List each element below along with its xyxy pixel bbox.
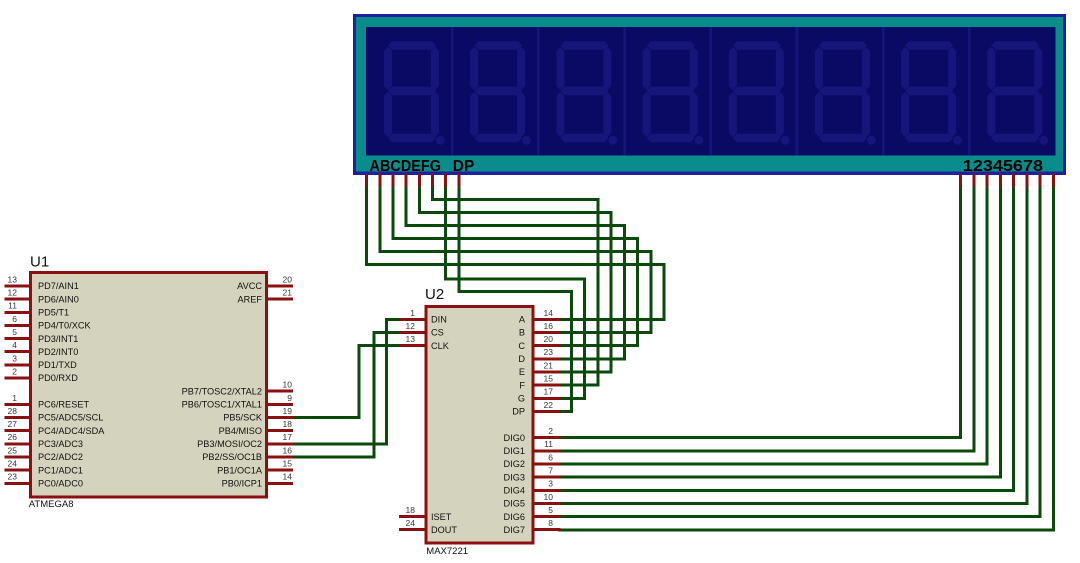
wire segment C: display C to U2 C xyxy=(393,189,638,346)
U1 pin 16 PB2/SS/OC1B xyxy=(202,445,293,462)
svg-text:16: 16 xyxy=(283,445,293,455)
svg-text:25: 25 xyxy=(8,445,18,455)
wire segment E: display E to U2 E xyxy=(419,189,611,373)
wire digit 4: display pin 4 to U2 DIG3 xyxy=(560,189,1001,478)
svg-text:PD5/T1: PD5/T1 xyxy=(38,308,69,318)
svg-text:18: 18 xyxy=(406,505,416,515)
svg-text:DIG7: DIG7 xyxy=(504,525,525,535)
U2 value label MAX7221 xyxy=(426,546,468,557)
svg-text:24: 24 xyxy=(406,518,416,528)
U2 pin 14 A xyxy=(519,308,561,325)
svg-text:13: 13 xyxy=(8,274,18,284)
svg-text:PB2/SS/OC1B: PB2/SS/OC1B xyxy=(202,452,262,462)
U1 pin 14 PB0/ICP1 xyxy=(222,472,293,489)
display pin C xyxy=(391,174,394,188)
U1 pin 28 PC5/ADC5/SCL xyxy=(5,406,104,423)
display pin digit 5 xyxy=(1012,174,1015,188)
wire digit 6: display pin 6 to U2 DIG5 xyxy=(560,189,1027,504)
svg-text:12: 12 xyxy=(406,321,416,331)
svg-text:U2: U2 xyxy=(425,286,444,303)
svg-text:CS: CS xyxy=(431,328,444,338)
svg-text:PB3/MOSI/OC2: PB3/MOSI/OC2 xyxy=(197,439,262,449)
svg-text:14: 14 xyxy=(283,472,293,482)
U2 pin 3 DIG4 xyxy=(504,479,561,496)
U2 pin 11 DIG1 xyxy=(504,439,561,456)
svg-text:2: 2 xyxy=(12,366,17,376)
svg-text:26: 26 xyxy=(8,432,18,442)
wire segment A: display A to U2 A xyxy=(367,189,664,320)
U2 pin 13 CLK xyxy=(399,334,450,351)
wire segment DP: display DP to U2 DP xyxy=(459,189,572,412)
svg-text:21: 21 xyxy=(283,288,293,298)
svg-text:AVCC: AVCC xyxy=(237,281,262,291)
svg-text:23: 23 xyxy=(544,347,554,357)
svg-text:PC4/ADC4/SDA: PC4/ADC4/SDA xyxy=(38,426,105,436)
svg-text:17: 17 xyxy=(544,387,554,397)
U1 pin 1 PC6/RESET xyxy=(5,393,90,410)
U2 pin 10 DIG5 xyxy=(504,492,561,509)
svg-text:PC3/ADC3: PC3/ADC3 xyxy=(38,439,83,449)
display pin digit 3 xyxy=(986,174,989,188)
U1 pin 11 PD5/T1 xyxy=(5,301,70,318)
display digit separators xyxy=(451,27,971,155)
svg-text:PC6/RESET: PC6/RESET xyxy=(38,400,89,410)
svg-text:A: A xyxy=(519,315,526,325)
U1 pin 18 PB4/MISO xyxy=(219,419,293,436)
U1 pin 4 PD2/INT0 xyxy=(5,340,79,357)
7-seg digit 8 xyxy=(987,41,1048,145)
U1 pin 27 PC4/ADC4/SDA xyxy=(5,419,106,436)
display pin digit 6 xyxy=(1025,174,1028,188)
U1 pin 23 PC0/ADC0 xyxy=(5,472,83,489)
svg-text:9: 9 xyxy=(287,393,292,403)
svg-text:PD7/AIN1: PD7/AIN1 xyxy=(38,281,79,291)
svg-text:5: 5 xyxy=(548,505,553,515)
svg-text:15: 15 xyxy=(544,374,554,384)
svg-text:2: 2 xyxy=(548,426,553,436)
svg-text:DIN: DIN xyxy=(431,315,447,325)
svg-text:23: 23 xyxy=(8,472,18,482)
svg-text:20: 20 xyxy=(544,334,554,344)
display pin E xyxy=(418,174,421,188)
svg-text:F: F xyxy=(519,380,525,390)
svg-text:PB7/TOSC2/XTAL2: PB7/TOSC2/XTAL2 xyxy=(182,386,262,396)
svg-text:11: 11 xyxy=(8,301,17,311)
display pin B xyxy=(378,174,381,188)
svg-text:6: 6 xyxy=(548,452,553,462)
svg-text:27: 27 xyxy=(8,419,18,429)
U2 pin 17 G xyxy=(518,387,561,404)
svg-text:DIG6: DIG6 xyxy=(504,512,525,522)
display pin digit 7 xyxy=(1039,174,1042,188)
U1 pin 15 PB1/OC1A xyxy=(217,459,293,476)
display pin digit 8 xyxy=(1052,174,1055,188)
svg-text:13: 13 xyxy=(406,334,416,344)
U1 pin 17 PB3/MOSI/OC2 xyxy=(197,432,293,449)
wire CLK: U2 CLK to U1 PB5/SCK xyxy=(293,346,399,418)
svg-text:PB4/MISO: PB4/MISO xyxy=(219,426,262,436)
U2 pin 22 DP xyxy=(512,400,560,417)
wire digit 1: display pin 1 to U2 DIG0 xyxy=(560,189,961,438)
wire segment B: display B to U2 B xyxy=(380,189,651,333)
U1 pin 24 PC1/ADC1 xyxy=(5,459,83,476)
svg-text:6: 6 xyxy=(12,314,17,324)
U2 refdes label xyxy=(425,286,444,303)
display pin digit 4 xyxy=(999,174,1002,188)
svg-text:PD4/T0/XCK: PD4/T0/XCK xyxy=(38,321,91,331)
U2 pin 16 B xyxy=(519,321,561,338)
7-seg digit 2 xyxy=(470,41,531,145)
wire digit 8: display pin 8 to U2 DIG7 xyxy=(560,189,1054,530)
svg-text:PB1/OC1A: PB1/OC1A xyxy=(217,465,263,475)
U1 pin 10 PB7/TOSC2/XTAL2 xyxy=(182,380,293,397)
svg-text:4: 4 xyxy=(12,340,17,350)
7-segment 8-digit display body xyxy=(353,14,1066,175)
svg-text:8: 8 xyxy=(548,518,553,528)
U2 pin 20 C xyxy=(518,334,560,351)
U1 pin 6 PD4/T0/XCK xyxy=(5,314,92,331)
U1 pin 19 PB5/SCK xyxy=(223,406,293,423)
U2 pin 24 DOUT xyxy=(399,518,457,535)
svg-text:U1: U1 xyxy=(30,254,49,271)
svg-text:PC1/ADC1: PC1/ADC1 xyxy=(38,465,83,475)
wire segment G: display G to U2 G xyxy=(446,189,585,399)
U2 pin 5 DIG6 xyxy=(504,505,561,522)
wire digit 7: display pin 7 to U2 DIG6 xyxy=(560,189,1041,517)
svg-text:DIG4: DIG4 xyxy=(504,486,525,496)
svg-text:AREF: AREF xyxy=(237,294,262,304)
svg-text:12: 12 xyxy=(8,288,18,298)
svg-text:PB6/TOSC1/XTAL1: PB6/TOSC1/XTAL1 xyxy=(182,400,262,410)
svg-text:CLK: CLK xyxy=(431,341,450,351)
svg-text:11: 11 xyxy=(544,439,553,449)
U1 refdes label xyxy=(30,254,49,271)
U1 pin 9 PB6/TOSC1/XTAL1 xyxy=(182,393,293,410)
display pin D xyxy=(405,174,408,188)
svg-text:10: 10 xyxy=(283,380,293,390)
display pin A xyxy=(365,174,368,188)
wire digit 2: display pin 2 to U2 DIG1 xyxy=(560,189,974,451)
svg-text:19: 19 xyxy=(283,406,293,416)
svg-text:DIG0: DIG0 xyxy=(504,433,525,443)
wire digit 5: display pin 5 to U2 DIG4 xyxy=(560,189,1014,491)
svg-text:DOUT: DOUT xyxy=(431,525,457,535)
U1 pin 13 PD7/AIN1 xyxy=(5,274,79,291)
U1 pin 3 PD1/TXD xyxy=(5,353,78,370)
display pin G xyxy=(444,174,447,188)
svg-text:14: 14 xyxy=(544,308,554,318)
svg-text:E: E xyxy=(519,367,525,377)
display pin digit 1 xyxy=(959,174,962,188)
svg-text:DIG5: DIG5 xyxy=(504,499,525,509)
U1 pin 25 PC2/ADC2 xyxy=(5,445,83,462)
svg-text:DIG1: DIG1 xyxy=(504,446,525,456)
svg-text:12345678: 12345678 xyxy=(963,158,1043,175)
svg-text:B: B xyxy=(519,328,525,338)
svg-text:24: 24 xyxy=(8,459,18,469)
svg-text:DIG3: DIG3 xyxy=(504,472,525,482)
svg-text:PD0/RXD: PD0/RXD xyxy=(38,373,78,383)
svg-text:ATMEGA8: ATMEGA8 xyxy=(29,499,74,510)
U1 value label ATMEGA8 xyxy=(29,499,74,510)
wire segment D: display D to U2 D xyxy=(406,189,624,359)
svg-text:PD1/TXD: PD1/TXD xyxy=(38,360,77,370)
svg-text:PB0/ICP1: PB0/ICP1 xyxy=(222,478,262,488)
svg-text:10: 10 xyxy=(544,492,554,502)
svg-text:28: 28 xyxy=(8,406,18,416)
U2 pin 18 ISET xyxy=(399,505,452,522)
svg-text:DIG2: DIG2 xyxy=(504,459,525,469)
display pin DP xyxy=(457,174,460,188)
7-seg digit 1 xyxy=(384,41,445,145)
wire segment F: display F to U2 F xyxy=(433,189,598,386)
wire digit 3: display pin 3 to U2 DIG2 xyxy=(560,189,988,465)
U1 pin 26 PC3/ADC3 xyxy=(5,432,83,449)
U2 pin 2 DIG0 xyxy=(504,426,561,443)
U2 pin 8 DIG7 xyxy=(504,518,561,535)
U2 pin 6 DIG2 xyxy=(504,452,561,469)
U2 pin 7 DIG3 xyxy=(504,466,561,483)
svg-text:16: 16 xyxy=(544,321,554,331)
svg-text:PD3/INT1: PD3/INT1 xyxy=(38,334,78,344)
svg-text:PD6/AIN0: PD6/AIN0 xyxy=(38,294,79,304)
IC U2 MAX7221 body xyxy=(426,306,533,543)
display pin F xyxy=(431,174,434,188)
svg-text:17: 17 xyxy=(283,432,293,442)
svg-text:C: C xyxy=(518,341,525,351)
display segment labels ABCDEFG DP xyxy=(370,158,475,175)
U1 pin 5 PD3/INT1 xyxy=(5,327,79,344)
svg-text:20: 20 xyxy=(283,274,293,284)
svg-text:5: 5 xyxy=(12,327,17,337)
svg-text:PD2/INT0: PD2/INT0 xyxy=(38,347,78,357)
svg-text:7: 7 xyxy=(548,466,553,476)
svg-text:22: 22 xyxy=(544,400,554,410)
svg-text:DP: DP xyxy=(453,158,475,175)
svg-text:PC5/ADC5/SCL: PC5/ADC5/SCL xyxy=(38,413,103,423)
svg-text:DP: DP xyxy=(512,407,525,417)
svg-text:PB5/SCK: PB5/SCK xyxy=(223,413,263,423)
U2 pin 23 D xyxy=(518,347,560,364)
svg-text:ABCDEFG: ABCDEFG xyxy=(370,158,442,175)
U2 pin 12 CS xyxy=(399,321,444,338)
7-seg digit 4 xyxy=(643,41,704,145)
svg-text:G: G xyxy=(518,394,525,404)
svg-text:MAX7221: MAX7221 xyxy=(426,546,468,557)
wire CS: U2 CS to U1 PB2/SS xyxy=(293,333,399,457)
U1 pin 20 AVCC xyxy=(237,274,293,291)
svg-text:1: 1 xyxy=(410,308,415,318)
IC U1 ATMEGA8 body xyxy=(31,273,267,497)
U2 pin 21 E xyxy=(519,360,561,377)
U1 pin 12 PD6/AIN0 xyxy=(5,288,79,305)
7-seg digit 6 xyxy=(815,41,876,145)
7-seg digit 7 xyxy=(901,41,962,145)
svg-text:18: 18 xyxy=(283,419,293,429)
svg-text:3: 3 xyxy=(548,479,553,489)
svg-text:PC2/ADC2: PC2/ADC2 xyxy=(38,452,83,462)
display digit labels 12345678 xyxy=(963,158,1043,175)
U2 pin 1 DIN xyxy=(399,308,447,325)
wire DIN: U2 DIN to U1 PB3/MOSI xyxy=(293,319,399,443)
svg-text:21: 21 xyxy=(544,360,554,370)
svg-text:ISET: ISET xyxy=(431,512,452,522)
svg-text:D: D xyxy=(518,354,525,364)
display pin digit 2 xyxy=(972,174,975,188)
U2 pin 15 F xyxy=(519,374,560,391)
7-seg digit 5 xyxy=(729,41,790,145)
svg-text:3: 3 xyxy=(12,353,17,363)
U1 pin 2 PD0/RXD xyxy=(5,366,79,383)
svg-text:1: 1 xyxy=(12,393,17,403)
svg-text:PC0/ADC0: PC0/ADC0 xyxy=(38,478,83,488)
U1 pin 21 AREF xyxy=(237,288,293,305)
svg-text:15: 15 xyxy=(283,459,293,469)
7-seg digit 3 xyxy=(556,41,617,145)
